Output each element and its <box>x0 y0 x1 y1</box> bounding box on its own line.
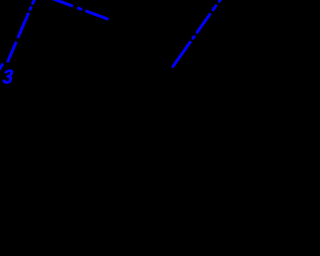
dash-dot graphic line L1, dash segment <box>18 14 28 37</box>
dash-dot graphic line L1, dot <box>29 8 33 10</box>
dash-dot graphic line L3, dot <box>193 37 194 39</box>
dash-dot graphic line L1, dash segment <box>8 43 16 61</box>
dash-dot graphic line L2 (top-centre, clipped dash at top edge) <box>50 0 72 6</box>
dash-dot graphic line L3, dash segment <box>173 42 190 66</box>
dash-dot graphic line L2, dash segment <box>87 11 108 19</box>
label digit 3 <box>4 71 13 83</box>
partial italic glyph (clipped character of label at left edge) <box>0 65 2 69</box>
dash-dot graphic line L2, dot <box>78 7 81 11</box>
dash-dot graphic line L3, short dash <box>213 6 216 10</box>
dash-dot graphic line L3 (upper-right, clipped dot at top edge) <box>219 0 221 1</box>
dash-dot graphic line L3, dash segment <box>197 14 210 32</box>
dash-dot graphic line L1 (upper-left, clipped dash at top edge) <box>33 0 35 3</box>
